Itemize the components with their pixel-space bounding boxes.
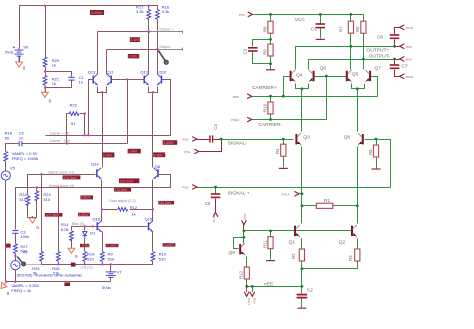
- gnd below R4: [279, 167, 288, 169]
- svg-text:PIN5: PIN5: [243, 213, 247, 220]
- wire R17 branch vertical: [148, 6, 150, 10]
- transistor Q14: [97, 168, 102, 179]
- transistor Q10: [157, 74, 162, 85]
- svg-text:PIN4: PIN4: [184, 150, 191, 154]
- svg-text:Output -: Output -: [159, 45, 173, 49]
- wire C7 to PIN11: [395, 70, 400, 77]
- resistor R3: [355, 249, 360, 261]
- svg-text:510: 510: [19, 197, 26, 202]
- svg-text:245.5mV: 245.5mV: [159, 201, 173, 205]
- resistor R12 gain: [118, 207, 128, 211]
- vbox Q10 base: [163, 140, 178, 145]
- svg-text:PIN11: PIN11: [406, 75, 414, 79]
- vbox D1 bottom: [80, 244, 89, 247]
- svg-text:Q3: Q3: [303, 134, 310, 140]
- wire PIN6 stub: [395, 46, 400, 48]
- svg-text:PIN12: PIN12: [406, 26, 414, 30]
- svg-text:Q11: Q11: [106, 69, 114, 74]
- svg-text:PIN8: PIN8: [233, 95, 240, 99]
- wire PIN1 to C4: [197, 139, 210, 141]
- svg-text:-760mV: -760mV: [81, 244, 92, 248]
- svg-text:Q8: Q8: [344, 134, 351, 140]
- vbox Q8 right: [158, 201, 174, 205]
- source V2: [11, 261, 20, 270]
- wire gain adjust left: [102, 209, 118, 211]
- svg-text:D1: D1: [90, 230, 96, 235]
- wire C5 stub: [215, 188, 217, 194]
- transistor Q4: [291, 70, 296, 82]
- svg-text:510: 510: [108, 256, 115, 261]
- wire V2 bottom: [15, 270, 17, 282]
- wire R16 bottom to Q10 collector: [157, 20, 159, 75]
- svg-text:1n: 1n: [19, 135, 23, 140]
- vbox inner base: [128, 149, 141, 154]
- wire R4 bottom: [283, 157, 285, 168]
- battery V6: [13, 46, 24, 61]
- svg-text:1k: 1k: [131, 211, 135, 216]
- svg-text:51: 51: [71, 121, 76, 126]
- capacitor C1: [68, 77, 74, 80]
- wire output-: [309, 60, 395, 70]
- pin below C5 up chevron: [212, 212, 218, 223]
- transistor Q8: [153, 168, 158, 179]
- vbox R9 top: [106, 244, 119, 247]
- wire Q14 emitter drop: [101, 180, 103, 210]
- resistor R9: [268, 44, 273, 56]
- svg-text:1.40V: 1.40V: [128, 150, 138, 154]
- svg-text:Signal Input +(1): Signal Input +(1): [48, 170, 74, 174]
- wire signal- green: [222, 139, 294, 141]
- svg-text:R8: R8: [262, 26, 267, 32]
- svg-text:Carrier - (10): Carrier - (10): [50, 139, 71, 143]
- svg-text:178mV: 178mV: [81, 196, 92, 200]
- vbox wire B right: [114, 188, 131, 192]
- vbox near R17: [130, 37, 140, 42]
- wire C3 branch bottom: [253, 52, 271, 64]
- svg-text:-277.9mV: -277.9mV: [45, 213, 60, 217]
- wire R20 column top: [45, 6, 47, 58]
- vbox bias left: [45, 213, 63, 217]
- svg-text:PIN1: PIN1: [182, 138, 189, 142]
- wire base rail Q9 Q1 Q2: [244, 230, 352, 232]
- wire left emitter drop to Q14: [102, 93, 104, 168]
- maroon connection stubs: [197, 28, 400, 229]
- wire Q15 emitter to R10: [152, 232, 154, 252]
- svg-text:Q4: Q4: [296, 72, 303, 78]
- svg-text:R10: R10: [262, 103, 267, 112]
- wire R2 R3 bottoms: [302, 262, 358, 269]
- gnd below C1: [316, 38, 325, 40]
- wire D1 to R19: [84, 239, 86, 252]
- gnd below R9 C3: [266, 69, 275, 71]
- svg-text:Output +: Output +: [159, 28, 173, 32]
- wire R9 bottom: [102, 262, 104, 265]
- pin PIN1: [182, 137, 197, 142]
- svg-text:R6: R6: [355, 26, 360, 32]
- transistor Q9: [240, 243, 245, 255]
- svg-text:170.0mV: 170.0mV: [115, 188, 129, 192]
- pin PIN6: [400, 44, 413, 49]
- resistor R20: [43, 57, 47, 67]
- svg-text:510: 510: [43, 197, 50, 202]
- wire Q13 collector vertical: [97, 32, 99, 75]
- svg-text:FREQ = 1000k: FREQ = 1000k: [12, 156, 39, 161]
- wire R1 right: [333, 205, 358, 207]
- wire bias mirror: [72, 227, 148, 231]
- transistor Q7: [365, 70, 370, 82]
- ground 0 below R24 R23: [29, 216, 39, 230]
- vbox 5.000V top: [90, 10, 104, 15]
- wire C2 stub: [301, 287, 303, 294]
- wire gray output-: [158, 48, 183, 51]
- wire Q13 base drop: [89, 80, 94, 136]
- wire signal+ (wire A): [28, 175, 96, 196]
- transistor Q12: [144, 74, 149, 85]
- wire R24 R23 bottoms join: [28, 201, 37, 218]
- wire quad left emitters: [296, 84, 309, 89]
- wire R10 top stub: [270, 97, 272, 103]
- wire C5 to pin: [215, 199, 217, 213]
- wire Q7 base drop: [371, 77, 378, 97]
- capacitor C2: [297, 295, 308, 298]
- svg-text:V5: V5: [10, 165, 16, 170]
- wire R5 bottom: [376, 158, 378, 169]
- svg-text:174.3mV: 174.3mV: [63, 176, 77, 180]
- wire R5 stub: [376, 140, 378, 146]
- wire Q8 emitter drop: [357, 147, 359, 224]
- svg-text:Carrier + (8): Carrier + (8): [50, 131, 69, 135]
- svg-text:R2: R2: [291, 253, 296, 259]
- wire right pair emitter rail: [149, 87, 158, 93]
- svg-text:C7: C7: [401, 64, 408, 70]
- wire battery V7 bottom: [110, 278, 112, 282]
- svg-text:PIN3: PIN3: [212, 217, 216, 223]
- wire C2 bottom: [301, 299, 303, 308]
- svg-text:R7: R7: [338, 26, 343, 32]
- current marker rail1: [71, 263, 76, 267]
- wire R8 top stub: [270, 15, 272, 22]
- current marker V5 line: [6, 244, 11, 248]
- wire V5 bottom to rail2: [5, 181, 7, 282]
- wire Q1 emitter to R2: [301, 239, 303, 250]
- svg-text:-4.240V: -4.240V: [163, 243, 174, 247]
- pin PIN12: [400, 25, 414, 30]
- svg-text:5Vdc: 5Vdc: [102, 286, 111, 290]
- wire Q8 collector drop: [357, 89, 359, 132]
- wire R1 branch: [302, 205, 317, 207]
- wire R19 bottom: [84, 262, 86, 265]
- wire drop to VEE: [301, 269, 303, 287]
- wire Q3 emitter drop: [301, 147, 303, 224]
- svg-text:Q10: Q10: [159, 69, 167, 74]
- svg-text:510: 510: [87, 256, 94, 261]
- probe 1 output-: [158, 51, 168, 65]
- svg-text:SIGNAL-: SIGNAL-: [228, 140, 248, 146]
- wire Q2 emitter to R3: [357, 239, 359, 250]
- wire C3 branch top: [253, 40, 271, 47]
- svg-text:Q12: Q12: [140, 69, 148, 74]
- svg-text:(14) (10): (14) (10): [81, 266, 93, 270]
- svg-text:4.000V: 4.000V: [79, 213, 90, 217]
- svg-text:Bias (5): Bias (5): [72, 222, 84, 226]
- wire PIN4 riser: [199, 140, 222, 152]
- resistor R2: [299, 249, 304, 261]
- pin PIN11: [400, 74, 414, 79]
- wire C6 bottom: [394, 40, 396, 47]
- capacitor C4 vertical plates: [210, 135, 213, 142]
- svg-text:R22: R22: [70, 103, 78, 108]
- svg-text:1k: 1k: [52, 81, 56, 86]
- wire R26 bottom: [58, 262, 60, 265]
- svg-text:V7: V7: [117, 269, 123, 274]
- wire R20-R21 mid + C1 branch: [45, 67, 47, 76]
- resistor R5: [373, 145, 378, 157]
- wire R11 top stub: [270, 231, 272, 237]
- svg-text:PIN13: PIN13: [247, 298, 251, 306]
- wire left pair emitter rail: [98, 87, 107, 93]
- svg-text:FREQ = 1k: FREQ = 1k: [11, 288, 31, 293]
- transistor Q2: [352, 225, 357, 237]
- wire quad right emitters: [352, 84, 365, 89]
- svg-text:Q14: Q14: [91, 162, 99, 167]
- pin PIN3: [400, 57, 413, 62]
- transistor Q6: [309, 70, 314, 82]
- wire R7 stub top: [350, 15, 352, 22]
- wire R22 left drop: [66, 114, 68, 144]
- svg-text:PIN10: PIN10: [231, 118, 239, 122]
- wire right emitter drop to Q8: [152, 93, 154, 168]
- wire Q9 emitter to R12: [246, 257, 248, 268]
- svg-text:R5: R5: [368, 149, 373, 155]
- wire Q8 emitter drop: [152, 180, 154, 210]
- wire output+ horizontal: [98, 31, 149, 33]
- transistor Q3: [296, 133, 301, 145]
- wire R10 bottom stub: [270, 115, 272, 120]
- ground 0 below R14: [68, 246, 78, 258]
- svg-text:C2: C2: [307, 287, 314, 293]
- svg-text:Q18: Q18: [92, 217, 100, 222]
- svg-text:3.10V: 3.10V: [128, 55, 138, 59]
- svg-text:OUTPUT+: OUTPUT+: [366, 48, 389, 54]
- wire A drop to R25: [41, 175, 43, 252]
- resistor R6: [361, 21, 366, 33]
- wire Q10 base drop: [162, 80, 171, 136]
- wire carrier- right of C2: [22, 143, 128, 145]
- wire top rail: [20, 6, 158, 48]
- source V5: [1, 171, 10, 180]
- resistor R19: [83, 252, 87, 262]
- pin PIN9 down: [250, 292, 257, 304]
- svg-text:Q15: Q15: [145, 217, 153, 222]
- svg-text:PIN6: PIN6: [406, 45, 413, 49]
- svg-text:VCC: VCC: [295, 17, 306, 23]
- wire output- horizontal: [107, 49, 158, 51]
- pin PIN5 down: [241, 213, 246, 225]
- capacitor C5: [211, 194, 221, 197]
- svg-text:Q9: Q9: [228, 250, 235, 256]
- svg-text:CARRIER+: CARRIER+: [252, 85, 277, 91]
- wire to C1 top: [46, 72, 72, 77]
- wire PIN5 drop: [243, 229, 245, 244]
- pin PIN4: [184, 149, 199, 154]
- svg-text:3.3k: 3.3k: [136, 9, 144, 14]
- wire inner base drop: [127, 80, 129, 144]
- battery V7: [106, 272, 116, 278]
- resistor R16: [156, 10, 160, 20]
- wire R9 bottom to gnd: [270, 57, 272, 70]
- wire PIN3 stub: [395, 59, 400, 61]
- svg-text:R1: R1: [324, 198, 331, 204]
- svg-text:R4: R4: [275, 148, 280, 154]
- svg-text:1k: 1k: [52, 63, 56, 68]
- svg-text:PIN2: PIN2: [182, 186, 189, 190]
- svg-text:C4: C4: [213, 123, 218, 129]
- wire signal+: [199, 187, 391, 189]
- pin PIN14: [281, 191, 299, 196]
- svg-text:(R25-R26) - modulierten carrie: (R25-R26) - modulierten carrier nustatym…: [17, 274, 83, 278]
- gnd below R5: [372, 168, 381, 170]
- wire rail1 VEE distribution: [42, 262, 153, 265]
- wire R14 bottom to gnd: [71, 240, 73, 249]
- wire R22 stub left: [67, 113, 70, 115]
- transistor Q13: [93, 74, 98, 85]
- svg-text:100n: 100n: [20, 234, 29, 239]
- wire C1 bottom: [46, 81, 72, 88]
- svg-text:SIGNAL +: SIGNAL +: [228, 191, 250, 197]
- vbox wire B left: [80, 195, 93, 199]
- wire C7 top: [394, 60, 396, 65]
- resistor R21: [43, 76, 47, 86]
- wire battery V7 drop: [110, 265, 112, 272]
- svg-text:5Vdc: 5Vdc: [5, 50, 14, 54]
- wire VEE: [246, 286, 302, 288]
- resistor R22: [69, 112, 79, 116]
- capacitor C7: [390, 65, 400, 68]
- wire carrier-: [252, 119, 327, 121]
- ground 0 below R20 R21: [42, 90, 52, 103]
- capacitor C3: [12, 231, 18, 234]
- svg-text:PIN3: PIN3: [406, 58, 413, 62]
- svg-text:Q7: Q7: [374, 66, 381, 72]
- wire C1 top stub: [320, 15, 322, 24]
- wire D1 top stub: [84, 227, 86, 231]
- wire R6 bottom to Q7 collector: [363, 34, 365, 70]
- wire Q18 collector up: [101, 210, 103, 222]
- transistor Q1: [295, 225, 300, 237]
- svg-text:Q8: Q8: [155, 164, 161, 169]
- wire Q3 collector drop: [301, 89, 303, 132]
- svg-text:CARRIER-: CARRIER-: [258, 122, 282, 128]
- wire VCC rail: [253, 14, 364, 16]
- wire R12 bottom to VEE: [246, 280, 248, 287]
- svg-text:C1: C1: [311, 26, 318, 32]
- svg-text:Signal Input -(4): Signal Input -(4): [49, 184, 75, 188]
- wire PIN12 to C6: [395, 28, 400, 35]
- wire R8-R9 mid: [270, 34, 272, 45]
- wire R11 bottom: [270, 249, 272, 260]
- resistor R14: [70, 231, 74, 241]
- resistor R23: [35, 191, 39, 201]
- resistor R9: [100, 252, 104, 262]
- wire C1 bottom stub: [320, 29, 322, 39]
- capacitor C3: [248, 48, 258, 51]
- wire gain adjust right: [130, 209, 153, 211]
- gnd below C2: [297, 307, 306, 309]
- wire R26 drop: [58, 188, 60, 252]
- svg-text:510: 510: [159, 256, 166, 261]
- svg-text:3.10V: 3.10V: [130, 38, 140, 42]
- wire rail2: [7, 281, 111, 283]
- vbox right emitter: [153, 152, 165, 157]
- svg-text:2.40V: 2.40V: [154, 153, 164, 157]
- svg-text:1n: 1n: [79, 80, 83, 85]
- wire Q4 base drop: [284, 77, 290, 97]
- wire inner bases Q11-Q12: [112, 79, 145, 81]
- green junction dots: [214, 13, 396, 288]
- svg-text:V2: V2: [23, 250, 29, 255]
- resistor R26: [56, 251, 60, 261]
- capacitor C6: [390, 35, 400, 38]
- wire R4 stub: [283, 140, 285, 145]
- resistor R18: [4, 152, 8, 162]
- transistor Q15: [149, 221, 154, 232]
- svg-text:6.0k: 6.0k: [61, 227, 69, 232]
- ground 0 below V6: [16, 60, 26, 70]
- resistor R4: [281, 144, 286, 156]
- wire PIN2 stub: [197, 187, 199, 189]
- svg-text:Q5: Q5: [352, 71, 359, 77]
- resistor R10: [151, 252, 155, 262]
- wire C3 R27 V2 column: [15, 234, 17, 244]
- svg-text:1.400V: 1.400V: [163, 141, 174, 145]
- wire carrier- left of C2: [6, 144, 19, 152]
- svg-text:OUTPUT-: OUTPUT-: [369, 54, 391, 60]
- svg-text:120.0mV: 120.0mV: [120, 179, 134, 183]
- wire R23 top stub: [36, 188, 38, 192]
- pin PIN2: [182, 185, 197, 190]
- wire inner bases Q6 Q5: [315, 76, 347, 78]
- resistor R7: [348, 21, 353, 33]
- vbox near R16: [128, 54, 139, 58]
- vbox R10 top: [163, 243, 176, 246]
- resistor R12: [244, 267, 249, 279]
- transistor Q18: [97, 221, 102, 232]
- wire R6 stub top: [363, 15, 365, 22]
- wire Q11 collector vertical: [106, 50, 108, 75]
- ground 0 rail2 left: [0, 281, 8, 291]
- resistor R10: [268, 102, 273, 114]
- transistor Q5: [347, 70, 352, 82]
- wire R22 right drop: [84, 114, 86, 136]
- svg-text:Q1: Q1: [289, 240, 296, 246]
- svg-text:R12: R12: [238, 270, 243, 279]
- vbox Q8 emitter: [119, 178, 139, 183]
- svg-text:PIN14: PIN14: [281, 192, 289, 196]
- wire carrier+: [252, 96, 378, 98]
- vbox bias right: [78, 213, 90, 217]
- svg-text:C5: C5: [205, 201, 211, 206]
- resistor R17: [147, 10, 151, 20]
- wire gray output+: [149, 31, 183, 34]
- wire Q18 emitter to R9: [102, 232, 104, 252]
- svg-text:R9: R9: [262, 49, 267, 55]
- wire Q15 collector up: [152, 210, 154, 222]
- svg-text:5.000V: 5.000V: [91, 11, 103, 15]
- svg-text:V6: V6: [23, 45, 29, 50]
- pin PIN13 down: [244, 287, 251, 306]
- pin PIN10: [231, 117, 252, 122]
- svg-text:R11: R11: [262, 240, 267, 248]
